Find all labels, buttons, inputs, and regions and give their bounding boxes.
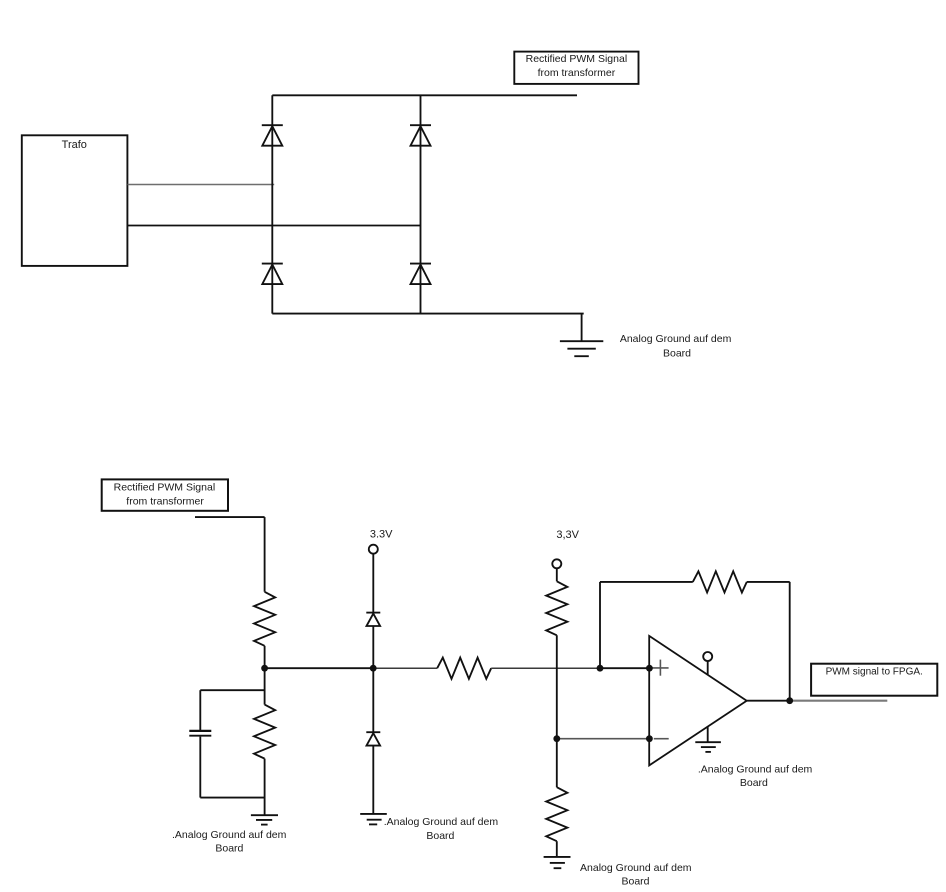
svg-text:.Analog Ground auf dem: .Analog Ground auf dem [384,816,499,828]
svg-text:Rectified PWM Signal: Rectified PWM Signal [526,53,628,65]
svg-text:Analog Ground auf dem: Analog Ground auf dem [620,333,732,345]
svg-text:PWM signal to FPGA.: PWM signal to FPGA. [826,667,923,678]
svg-text:.Analog Ground auf dem: .Analog Ground auf dem [698,764,813,776]
svg-text:Trafo: Trafo [62,139,87,151]
svg-text:3.3V: 3.3V [370,528,393,540]
svg-text:Rectified PWM Signal: Rectified PWM Signal [114,482,216,494]
svg-text:Board: Board [740,777,768,789]
svg-text:Board: Board [621,876,649,888]
svg-text:Board: Board [426,830,454,842]
svg-text:Analog Ground auf dem: Analog Ground auf dem [580,862,692,874]
svg-text:from transformer: from transformer [538,67,616,79]
svg-text:.Analog Ground auf dem: .Analog Ground auf dem [172,829,287,841]
svg-text:3,3V: 3,3V [556,529,579,541]
svg-text:Board: Board [215,843,243,855]
svg-text:from transformer: from transformer [126,496,204,508]
svg-text:Board: Board [663,347,691,359]
